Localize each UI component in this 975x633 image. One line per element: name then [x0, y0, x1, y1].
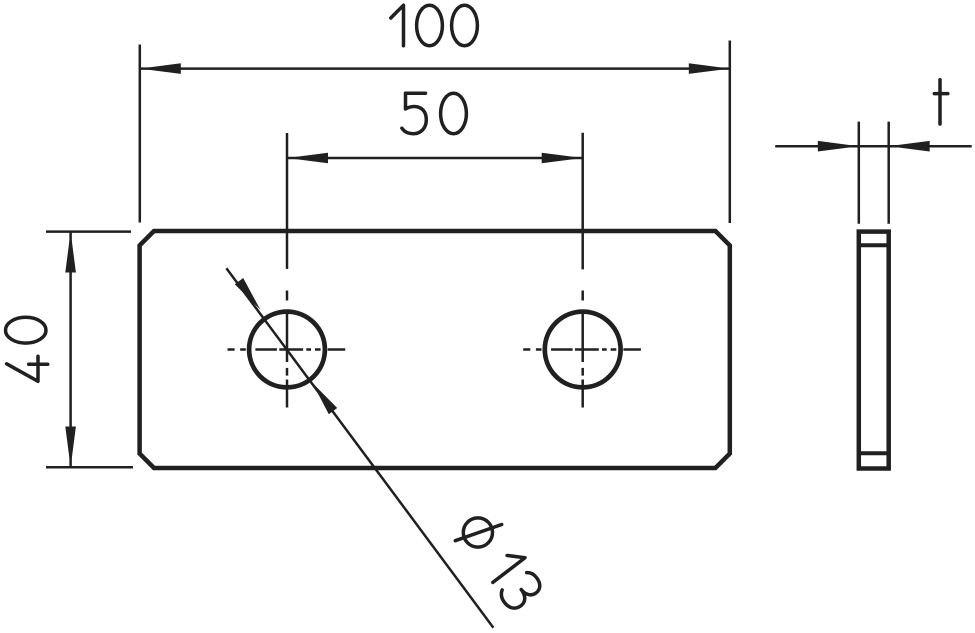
arrowhead leader upper	[235, 278, 261, 310]
text Ø13 digit 3	[498, 569, 545, 613]
dimension 50 extension line left	[286, 133, 289, 269]
plate outline front view	[140, 231, 730, 468]
arrowhead 40 bottom	[65, 427, 76, 468]
arrowhead 100 right	[689, 63, 730, 74]
dimension 40 extension line bottom	[46, 466, 133, 469]
arrowhead t right	[889, 141, 930, 152]
hole right Ø13	[545, 312, 621, 388]
centerline horizontal right hole	[523, 348, 641, 351]
centerline vertical right hole	[581, 291, 584, 408]
dimension 100 extension line left	[139, 45, 142, 223]
arrowhead 50 right	[542, 153, 583, 164]
side view inner line top	[857, 243, 891, 247]
centerline vertical left hole	[286, 291, 289, 408]
text 50	[402, 93, 467, 134]
text Ø13 diameter symbol	[455, 518, 501, 547]
dimension t line	[775, 145, 972, 148]
dimension 100 extension line right	[729, 41, 732, 224]
arrowhead t left	[818, 141, 859, 152]
arrowhead 40 top	[65, 232, 76, 273]
arrowhead leader lower	[313, 383, 338, 414]
dimension t extension line left	[858, 122, 861, 224]
text t	[934, 80, 948, 124]
dimension 40 line	[69, 232, 72, 468]
centerline horizontal left hole	[228, 348, 346, 351]
hole left Ø13	[249, 312, 325, 388]
dimension t extension line right	[887, 122, 890, 224]
text 100	[391, 5, 478, 46]
text Ø13 digit 1	[485, 548, 525, 583]
arrowhead 50 left	[287, 153, 328, 164]
dimension 100 line	[140, 67, 730, 70]
leader line Ø13	[226, 268, 493, 627]
text 40 rotated	[6, 317, 48, 381]
dimension 50 line	[287, 157, 583, 160]
dimension 50 extension line right	[581, 133, 584, 270]
dimension 40 extension line top	[46, 230, 131, 233]
side view rectangle	[859, 232, 889, 469]
side view inner line bottom	[857, 451, 891, 455]
arrowhead 100 left	[140, 63, 181, 74]
